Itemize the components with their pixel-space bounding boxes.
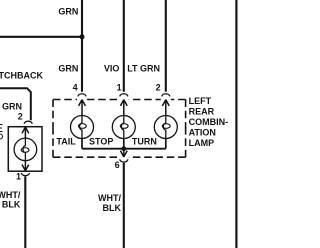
lamp (left, tail) circle (14, 138, 37, 161)
pin 2 male arrow (162, 100, 169, 116)
svg-text:WHT/: WHT/ (98, 193, 121, 203)
pin 1 female cup (120, 94, 128, 97)
svg-text:COMBIN-: COMBIN- (189, 117, 229, 127)
pin 2 male arrow into box (22, 127, 29, 138)
svg-text:LEFT: LEFT (189, 96, 212, 106)
wire WHT/BLK left, down to bottom (24, 176, 26, 248)
bus wire connecting lamp bottoms (82, 148, 166, 150)
svg-text:ATION: ATION (189, 128, 216, 138)
lamp TAIL filament (80, 115, 82, 138)
pin 6 male arrow down (120, 149, 127, 157)
node junction dot (80, 34, 85, 39)
svg-text:TURN: TURN (132, 137, 157, 147)
svg-text:LT GRN: LT GRN (127, 63, 160, 73)
lamp TURN circle (154, 116, 177, 139)
cut text fragments at left image edge (0, 125, 3, 132)
left lamp box (8, 127, 42, 172)
wire GRN horizontal branch from left (0, 36, 82, 38)
svg-text:2: 2 (18, 111, 23, 121)
svg-text:6: 6 (115, 160, 120, 170)
svg-text:REAR: REAR (189, 107, 215, 117)
svg-text:BLK: BLK (2, 200, 21, 210)
wire lamp TURN to bus (165, 139, 167, 149)
svg-text:4: 4 (73, 83, 78, 93)
svg-text:1: 1 (117, 83, 122, 93)
pin 2 female cup (162, 94, 170, 97)
svg-text:GRN: GRN (58, 63, 78, 73)
wire GRN vertical from top (81, 0, 83, 92)
wire LT GRN vertical from top (165, 0, 167, 92)
pin 1 male arrow to box bottom (22, 161, 29, 171)
svg-text:1: 1 (16, 172, 21, 182)
lamp STOP circle (112, 116, 135, 139)
node junction dot on bus (121, 146, 126, 151)
pin 4 male arrow (79, 100, 86, 116)
pin 4 female cup (78, 94, 86, 97)
svg-text:BLK: BLK (103, 203, 122, 213)
wire GRN from hatchback: horizontal then bend down (0, 88, 31, 120)
pin 2 female connector cup (24, 121, 32, 124)
dashed box LEFT REAR COMBINATION LAMP (53, 100, 186, 158)
svg-text:GRN: GRN (2, 101, 22, 111)
wire right edge vertical full height (235, 0, 237, 248)
pin 1 female connector cup (21, 173, 29, 176)
wire WHT/BLK center down to bottom (123, 163, 125, 248)
wire lamp TAIL to bus (81, 139, 83, 149)
svg-text:STOP: STOP (89, 137, 113, 147)
lamp STOP filament (121, 115, 123, 138)
gaps in dashed edges at connectors (77, 98, 171, 159)
lamp TAIL circle (71, 116, 94, 139)
svg-text:GRN: GRN (58, 7, 78, 17)
svg-text:TCHBACK: TCHBACK (0, 71, 43, 81)
svg-text:VIO: VIO (104, 63, 120, 73)
svg-text:LAMP: LAMP (189, 138, 215, 148)
svg-text:2: 2 (156, 83, 161, 93)
lamp TURN filament (163, 115, 165, 138)
lamp filament left (23, 138, 25, 161)
pin 1 male arrow (120, 100, 127, 116)
wire VIO vertical from top (123, 0, 125, 92)
pin 6 female cup (120, 159, 128, 162)
svg-text:TAIL: TAIL (56, 137, 76, 147)
wire lamp STOP to bus (123, 139, 125, 149)
